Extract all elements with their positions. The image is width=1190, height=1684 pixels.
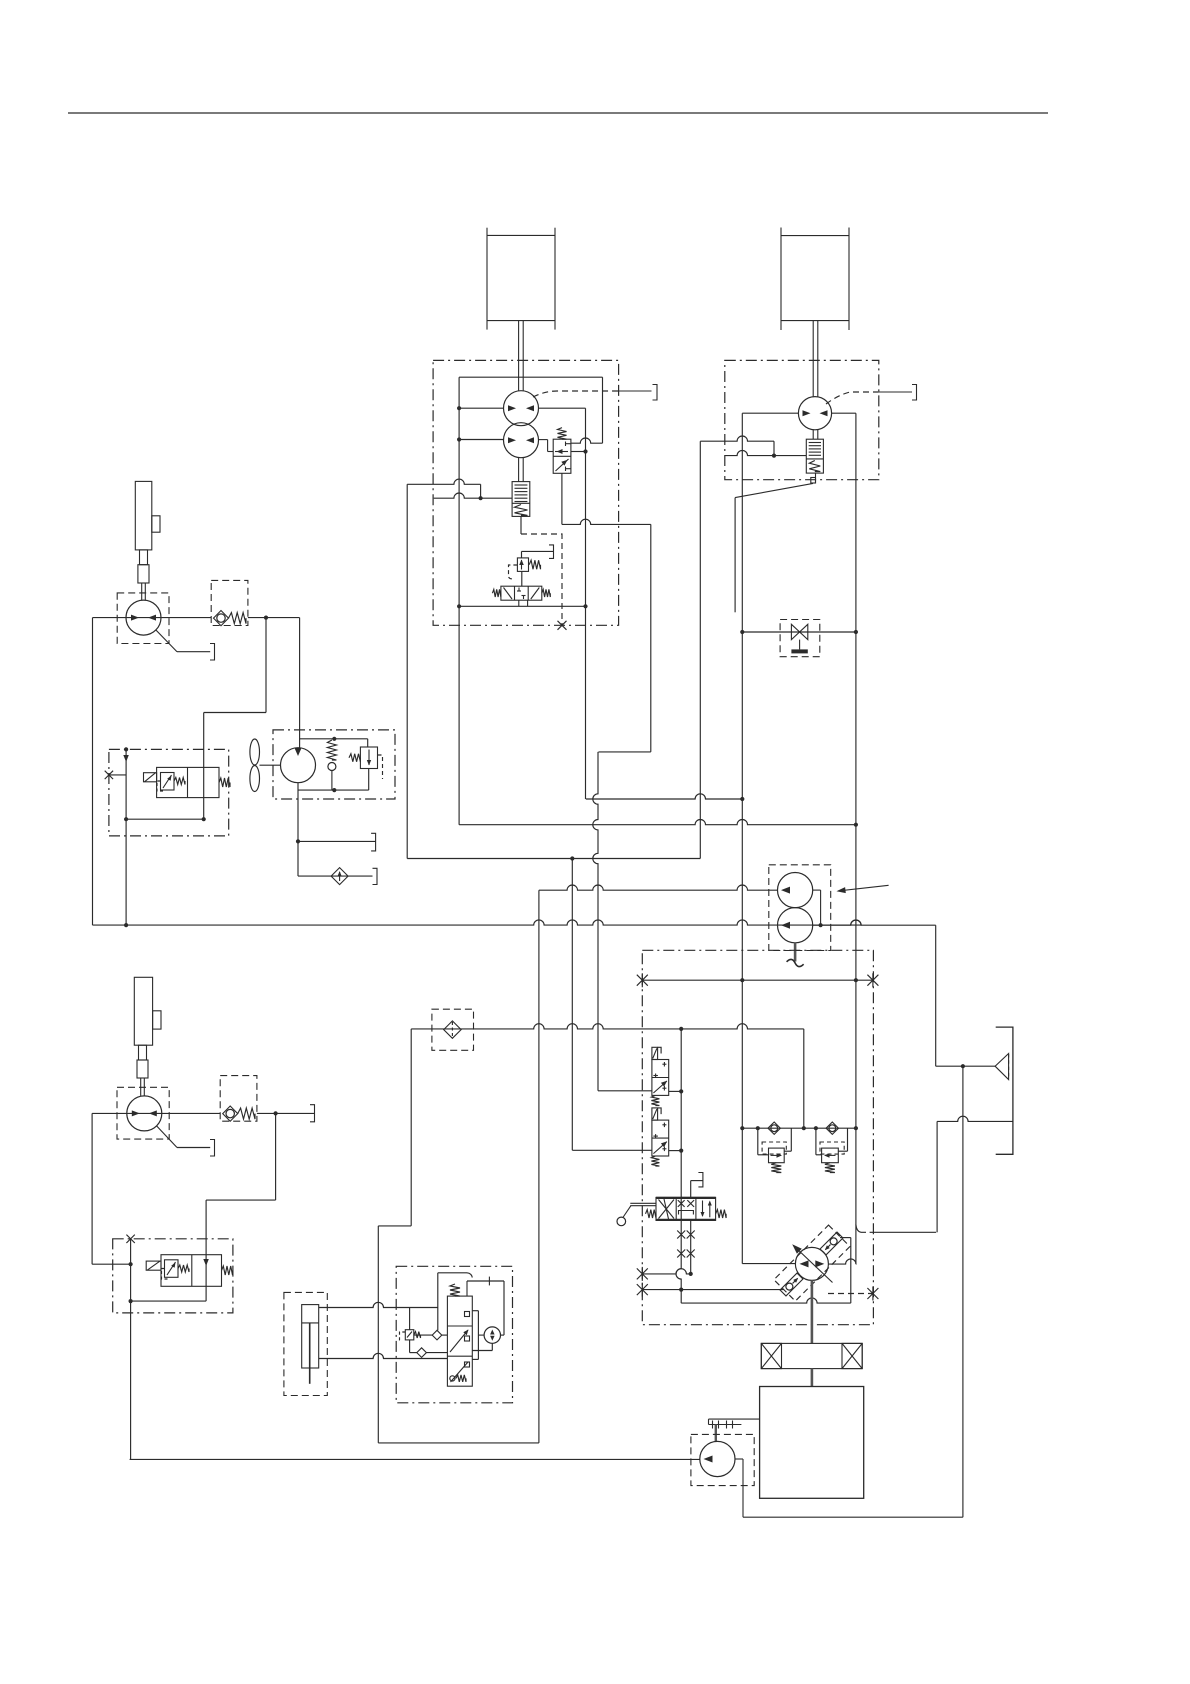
wire fan bottom rail	[298, 789, 369, 791]
wire servo line y1289.6	[642, 1289, 783, 1291]
cylinder C2 (right track frame)	[780, 228, 782, 331]
wire link y1264.2	[92, 1263, 131, 1265]
header rule	[68, 112, 1048, 114]
arrow in TP left	[800, 1260, 809, 1267]
return filter FT triangle	[995, 1054, 1009, 1080]
filter F1 diamond	[444, 1021, 461, 1038]
XR1 spring	[771, 1163, 781, 1173]
wire pilot stub	[879, 391, 912, 393]
solenoid valve V5 body	[157, 767, 219, 797]
tank connector TB	[996, 1027, 1013, 1154]
plug X on drain	[558, 621, 567, 630]
cylinder BC rod	[309, 1323, 311, 1384]
XR2 arrow	[825, 1154, 836, 1156]
dash-dot box B15 (solenoid valve unit)	[396, 1266, 512, 1403]
pilot valve V1 (2-position, counterbalance pilot)	[553, 439, 571, 473]
dash-dot box B13 (valve unit)	[113, 1239, 233, 1313]
RV1 drain dashes	[378, 755, 383, 779]
node at M1a left port	[457, 406, 461, 410]
arrow in P2	[781, 922, 790, 929]
wire riser x407.2	[406, 484, 408, 858]
wire V1 to node	[571, 451, 586, 453]
cylinder stack LC2	[134, 977, 152, 1045]
hydraulic motor M1b (travel motor, second section)	[504, 423, 539, 458]
wire D2 drop	[437, 1308, 439, 1331]
wire drop x962.9 to pilot pump line	[962, 1066, 964, 1517]
node tank tee	[296, 839, 300, 843]
wire drop x690.7	[690, 1220, 692, 1274]
wire pilot drain across	[562, 519, 651, 524]
dashed drain to X	[828, 1293, 873, 1295]
gear pump P1	[778, 873, 813, 908]
node rail c	[802, 1126, 806, 1130]
wire SV2 feed	[572, 1149, 652, 1151]
wire PV mid stubs	[690, 1181, 692, 1198]
cylinder stack LC1	[135, 481, 152, 550]
solenoid valve SV2	[652, 1120, 669, 1156]
check spring branch	[327, 740, 336, 760]
arrow in M1a left	[508, 405, 516, 411]
PV left spring	[646, 1210, 657, 1218]
wire pump left port	[742, 1263, 795, 1265]
XR2 out	[838, 1150, 847, 1152]
arrow in M5 left	[132, 1110, 140, 1116]
wire D3 to valve	[426, 1352, 447, 1354]
wire PR1 to port	[522, 550, 554, 552]
shaft to engine	[811, 1369, 814, 1387]
CB1 rod from M1b	[518, 458, 520, 482]
solenoid valve SV1 (two-speed)	[652, 1060, 669, 1096]
V9 mid glyphs	[450, 1330, 468, 1352]
wire relief rail y1128.2	[742, 1127, 856, 1129]
engine block	[760, 1387, 864, 1499]
PV right spring	[716, 1210, 727, 1218]
check valve CV1 box	[211, 580, 248, 625]
PV left cell X	[659, 1200, 675, 1219]
TP servo cylinder upper	[820, 1232, 843, 1255]
dash-dot box B10 (main pump unit)	[642, 950, 873, 1324]
check diamond XD2	[826, 1122, 838, 1134]
flexible coupling	[761, 1343, 862, 1368]
wire outlet bottom	[743, 1516, 963, 1518]
DV1 tank ports	[518, 600, 520, 606]
wire drop x130.6 to suction	[130, 1239, 132, 1460]
node rail d	[814, 1126, 818, 1130]
PR1 spring	[529, 560, 540, 569]
wire lever to port	[177, 651, 210, 653]
wire bus y824.7	[459, 820, 856, 825]
V5 right spring	[219, 778, 230, 787]
node bottom	[129, 1299, 133, 1303]
node fan bottom	[332, 788, 336, 792]
wire bus y799	[586, 794, 743, 799]
cylinder BC body	[302, 1305, 319, 1368]
dashed box B12 around motor M5	[117, 1087, 169, 1139]
dashed box B3 around motor M3	[117, 593, 169, 644]
node drain rail right	[583, 604, 587, 608]
plug X right	[867, 973, 878, 987]
wire filter line y1029	[411, 1024, 804, 1029]
spring of V1	[558, 428, 567, 440]
PV right cell arrows	[702, 1201, 704, 1217]
dashed box B14 (cylinder unit)	[284, 1292, 327, 1395]
wire drain riser x650.8	[650, 524, 652, 752]
wire bottom y1301.1	[131, 1300, 207, 1302]
CB1 spring	[515, 505, 528, 516]
node check junction low	[274, 1111, 278, 1115]
check diamond D3	[417, 1348, 427, 1358]
dash-dot box B4 (fan motor unit)	[273, 730, 395, 799]
relief XR2 feed	[815, 1128, 817, 1155]
arrow in M3 left	[131, 615, 139, 621]
dashed pilot segment	[521, 534, 562, 625]
node SV2 out	[679, 1149, 683, 1153]
node drain rail left	[457, 604, 461, 608]
wire TP case drain	[681, 1298, 851, 1303]
wire P2 out	[813, 920, 936, 925]
CV2 ball	[226, 1109, 234, 1117]
dashed pilot line from M1a	[533, 391, 619, 397]
wire SV1 feed	[598, 1090, 652, 1092]
XR2 spring	[825, 1163, 835, 1173]
pump drive shaft	[794, 943, 797, 962]
filter/check D1 diamond	[331, 868, 348, 885]
wire fan supply drop x299.6	[299, 618, 301, 748]
TP drive shaft	[811, 1280, 814, 1343]
node filter branch	[961, 1064, 965, 1068]
plug X drain	[867, 1287, 878, 1301]
wire RV1 bottom	[368, 769, 370, 791]
check ball fan	[328, 763, 336, 771]
wire TP right port	[828, 1259, 856, 1264]
wire SV2 out	[669, 1150, 682, 1152]
wire V1 top port	[571, 438, 603, 443]
CV1 seat	[214, 611, 229, 626]
tank connector BR6	[373, 868, 378, 884]
arrow in PP	[704, 1456, 713, 1463]
node pilot	[479, 496, 483, 500]
RV1 spring	[349, 754, 360, 762]
arrow in M4 top	[295, 748, 302, 756]
pilot pump PP	[700, 1441, 735, 1476]
wire drop x378.3	[377, 1226, 379, 1443]
node y1029 branch	[679, 1027, 683, 1031]
wire M1a left port	[459, 407, 504, 409]
wire V1 drain down	[561, 473, 563, 524]
wire PR1 top	[521, 551, 523, 558]
node rail e	[854, 1126, 858, 1130]
wire branch x572.3 down	[571, 859, 573, 1151]
wire PP outlet	[735, 1458, 743, 1460]
dash-dot box B5 (control valve unit)	[109, 749, 229, 836]
arrow in M2 right	[820, 410, 828, 416]
V5 inner drain	[157, 781, 165, 791]
node plug rail a	[740, 978, 744, 982]
wire pilot stub to port	[619, 390, 652, 392]
wire drop x935.7	[935, 925, 937, 1066]
wire servo link	[840, 1237, 851, 1239]
wire M1b right port to valve V1	[538, 439, 547, 441]
M9 arrows	[490, 1330, 495, 1335]
CB2 lever arm	[735, 483, 813, 497]
wire inner top manifold	[459, 376, 602, 378]
engine PTO linkage	[709, 1418, 760, 1420]
wire drop x803.8	[803, 1029, 805, 1128]
wire main rail y617.6	[93, 617, 127, 619]
port connector BR3	[912, 385, 917, 401]
wire R9 bottom	[409, 1340, 411, 1353]
TP servo cylinder lower	[780, 1273, 803, 1296]
relief valve XR1	[769, 1148, 785, 1163]
wire supply drop x126 with arrow	[125, 749, 127, 925]
plug marks on x681.2	[677, 1231, 685, 1239]
V5 inner reducing valve	[161, 773, 175, 791]
wire M9 ports	[501, 1334, 505, 1336]
V7 tab	[146, 1261, 161, 1270]
wire drop x937.1	[936, 1121, 938, 1232]
plug X servo1	[637, 1283, 648, 1297]
wire check to fan riser	[265, 618, 267, 713]
dashed box B11 (pilot pump)	[691, 1434, 754, 1485]
V9 solenoid	[450, 1376, 455, 1381]
counterbalance valve CB2 body	[806, 439, 823, 473]
wire crossover bottom	[725, 450, 807, 455]
wire BC top port	[319, 1302, 438, 1307]
V7 inner drain	[162, 1269, 170, 1280]
wire tank stub	[298, 840, 376, 842]
V1 bottom cell diagonal	[556, 459, 569, 471]
XR1 pilot dashes	[762, 1142, 786, 1154]
dash-dot enclosure B1 (left travel motor unit)	[433, 360, 618, 625]
CB2 hatch lines	[809, 442, 821, 444]
node inner right	[202, 817, 206, 821]
wire pilot corner	[480, 484, 482, 498]
wire drain jog	[599, 751, 651, 753]
wire jog y1200.1	[206, 1199, 276, 1201]
fan blades	[250, 739, 260, 765]
wire top link	[438, 1272, 467, 1274]
node fan top	[332, 737, 336, 741]
wire drop x206.1 with arrow	[205, 1200, 207, 1301]
wire drain drop x597.4	[593, 752, 598, 1091]
PR1 arrow	[521, 560, 523, 570]
wire crossover top	[700, 436, 774, 441]
wire V9 motor loop top	[466, 1281, 468, 1296]
GV stem and seat	[799, 640, 801, 650]
wire P1 out loop	[813, 889, 821, 891]
node bus y799 end	[740, 797, 744, 801]
wire D2 links	[414, 1334, 432, 1336]
CV2 seat	[223, 1106, 238, 1121]
wire M2 right port	[831, 412, 856, 414]
arrow in TP right	[815, 1260, 824, 1267]
wire DV1 drain rail	[459, 605, 585, 607]
node rail a	[740, 1126, 744, 1130]
relief valve XR2	[822, 1148, 839, 1163]
hydraulic motor M5	[127, 1096, 162, 1131]
CV1 ball	[217, 614, 225, 622]
wire left manifold vertical	[458, 377, 460, 825]
port connector BR1	[653, 385, 658, 401]
node on box top	[124, 747, 128, 751]
leader arrow to pump	[838, 885, 889, 891]
wire R9 top	[409, 1308, 411, 1330]
port connector BR2 pilot	[549, 545, 554, 559]
node servo	[679, 1288, 683, 1292]
node crossover	[772, 454, 776, 458]
wire CB1 drain	[520, 516, 522, 534]
dash-dot enclosure B2 (right travel motor unit)	[725, 360, 879, 479]
arrow in M1b left	[508, 437, 516, 443]
arrow in M5 right	[149, 1110, 157, 1116]
small motor M9	[484, 1327, 500, 1343]
V5 solenoid tab	[144, 773, 157, 782]
node y858.5 branch	[570, 856, 574, 860]
CB2 rod	[812, 430, 814, 440]
gate valve GV bowtie	[791, 624, 807, 639]
fan motor M4	[281, 748, 316, 783]
travel pump TP	[795, 1247, 828, 1280]
arrow in P1	[781, 887, 790, 894]
wire PP suction	[130, 1458, 700, 1460]
PR1 pilot dashes	[509, 565, 518, 579]
wire tall rail x700.3	[699, 441, 701, 858]
wire long right rail x855.9	[855, 413, 857, 1264]
relief XR1 feed	[757, 1128, 759, 1155]
V1 port ticks	[565, 442, 567, 447]
XR2 pilot dashes	[820, 1142, 844, 1154]
piston rod of C2	[812, 321, 814, 397]
dashed box B6 (tandem gear pump)	[769, 865, 831, 951]
counterbalance valve CB1 body	[512, 482, 530, 517]
pilot relief PR1 (pressure reducing)	[517, 558, 528, 572]
curved branch from x855.9	[856, 1225, 861, 1233]
wire right drop x275.6	[275, 1113, 277, 1200]
PTO shaft	[715, 1425, 717, 1442]
node bus y824.7 end	[854, 823, 858, 827]
DV1 right spring	[542, 589, 551, 597]
DV1 left spring	[492, 589, 501, 597]
XR1 out	[784, 1150, 791, 1152]
wire M9 bottom loop	[491, 1343, 493, 1350]
M5 lever diagonal	[157, 1126, 177, 1148]
wire bus y858.5	[407, 858, 700, 860]
wire drain to filter D1	[298, 875, 373, 877]
wire CB1 pilot line B	[434, 493, 512, 498]
plug marks on x690.7	[687, 1231, 695, 1239]
hydraulic motor M3	[126, 600, 161, 635]
node SV1 out	[679, 1089, 683, 1093]
wire vertical drop x585.5	[585, 408, 587, 799]
dashed pilot from M2	[826, 392, 879, 404]
node link	[129, 1262, 133, 1266]
node at M1b left port	[457, 437, 461, 441]
directional valve DV1 (3-position)	[501, 586, 542, 600]
check diamond XD1	[768, 1122, 780, 1134]
wire M1b left port	[459, 439, 504, 441]
node x690.7 end	[689, 1272, 693, 1276]
wire M9 loop left	[477, 1311, 479, 1360]
wire RV1 riser	[367, 739, 369, 747]
wire to plug port	[691, 1180, 703, 1182]
wire drop x203.7	[203, 713, 205, 820]
gear pump P2	[778, 908, 813, 943]
valve V9 body	[447, 1296, 472, 1386]
wire left drop low	[91, 1113, 93, 1264]
wire bus y890.2 to pump P1	[539, 885, 778, 890]
plug X on box	[126, 1235, 134, 1243]
node pilot junction	[583, 449, 587, 453]
V7 right spring	[222, 1266, 233, 1275]
piston rod of C1 to motor M1	[518, 321, 520, 391]
wire M4 top tee	[300, 738, 368, 740]
hydraulic motor M1a (travel motor, first section)	[504, 391, 539, 426]
wire crossover corner	[773, 441, 775, 455]
cylinder C1 (left track frame)	[486, 228, 488, 330]
LC1 rod segments	[140, 550, 148, 565]
node check junction	[264, 616, 268, 620]
fan shaft	[260, 764, 281, 766]
R9 tab dashes	[400, 1332, 406, 1340]
gate valve GV enclosure	[780, 620, 820, 657]
arrow in M1b right	[526, 437, 534, 443]
wire riser x437.8	[437, 1273, 439, 1308]
plug X with stub	[105, 771, 113, 779]
CV1 spring	[229, 613, 247, 624]
port connector BR7	[698, 1173, 703, 1187]
fan relief RV1	[360, 747, 377, 769]
M3 lever diagonal	[156, 630, 177, 652]
wire to filter FT	[936, 1065, 995, 1067]
node inner left	[124, 817, 128, 821]
check diamond D2	[432, 1330, 442, 1340]
shaft coupling squiggle	[786, 959, 804, 967]
wire tank bottom y1121.4	[937, 1116, 1013, 1121]
wire fan motor drop	[297, 783, 299, 876]
wire inner link	[126, 818, 204, 820]
D1 arrow	[339, 872, 341, 881]
CB1 hatch lines	[515, 484, 528, 486]
port connector BR4	[210, 644, 215, 661]
wire return y1442.9	[378, 1442, 539, 1444]
node rail b	[756, 1126, 760, 1130]
wire plug line y1273.9	[642, 1269, 690, 1274]
arrow in M3 right	[148, 615, 156, 621]
V1 top cell arrow	[555, 451, 568, 453]
V9 relief R9	[405, 1330, 414, 1340]
wire jog y1225.9	[378, 1225, 411, 1227]
wire M1a right port	[538, 407, 585, 409]
TP swash arrow	[794, 1246, 833, 1283]
CB2 lever rod down	[734, 498, 736, 613]
wire BC bottom port	[319, 1353, 448, 1358]
wire return y1232.3	[870, 1231, 936, 1233]
wire drop x538.9	[538, 890, 540, 1443]
plug X top-left	[637, 973, 648, 987]
DV1 cell glyphs	[504, 588, 513, 600]
travel valve PV body	[656, 1197, 716, 1220]
wire right riser from top manifold	[602, 377, 604, 443]
wire bus y925.1 to pump P2	[93, 920, 862, 925]
filter F1 box	[432, 1009, 474, 1050]
wire SV1 out	[669, 1090, 682, 1092]
wire jog to valve box	[204, 712, 266, 714]
LC2 rod segments	[139, 1045, 147, 1060]
V9 top spring	[450, 1284, 460, 1296]
arrow in M2 left	[803, 410, 811, 416]
XR1 arrow	[771, 1154, 782, 1156]
wire left drop x92.5	[92, 618, 94, 926]
